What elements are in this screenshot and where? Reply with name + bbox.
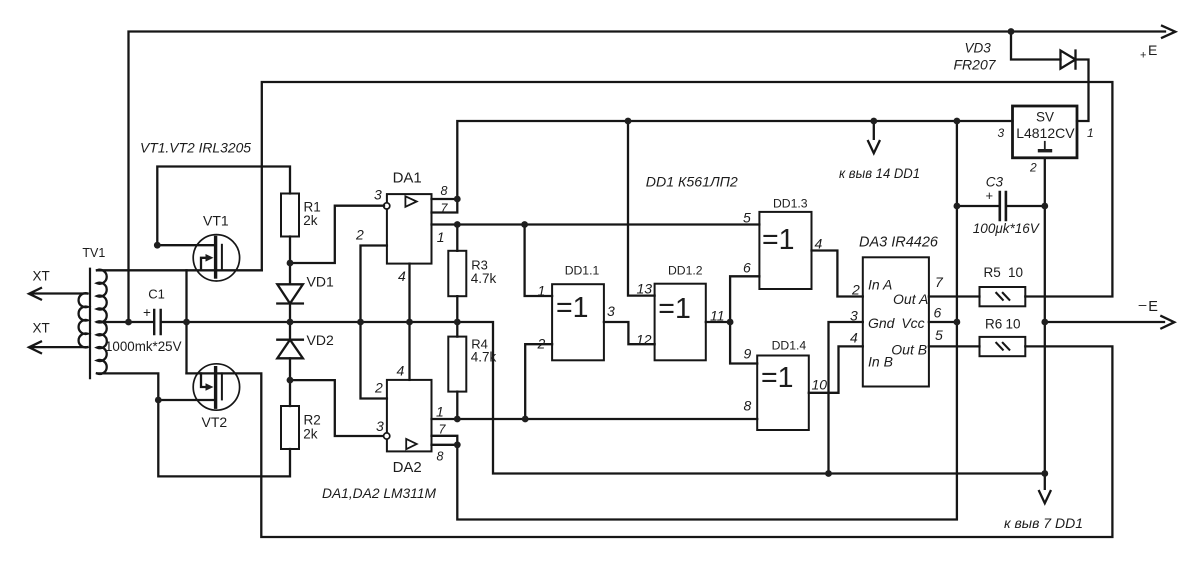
svg-text:VT1.VT2 IRL3205: VT1.VT2 IRL3205 [140,140,251,156]
svg-text:4: 4 [398,268,406,284]
logic gate DD1.1 box [552,284,604,360]
svg-text:9: 9 [744,346,752,362]
node VT2 gate [155,397,162,404]
svg-text:4.7k: 4.7k [471,350,497,365]
node DD1.2 output [727,319,734,326]
transformer TV1 primary winding [79,293,88,347]
svg-text:8: 8 [441,184,448,198]
transistor VT1 arrow [201,258,207,271]
driver DA3 box [863,257,929,386]
wire DA1 pin8 pin7 [432,199,458,213]
resistor R5 [980,287,1026,306]
svg-text:4: 4 [815,236,823,252]
wire DD1.1 pin1 dropper [525,225,553,297]
svg-text:DD1 К561ЛП2: DD1 К561ЛП2 [646,174,738,190]
node DA1 pin1 R3 [454,221,461,228]
node R1 bottom [287,260,294,267]
transistor VT1 circle [193,235,239,281]
svg-text:1: 1 [538,283,546,299]
svg-text:VD3: VD3 [965,41,992,56]
wire DD1.1 output to DD1.2 pin12 [604,322,655,344]
svg-text:5: 5 [743,210,751,226]
node +12 rail riser [954,118,961,125]
svg-text:13: 13 [637,280,653,296]
logic gate DD1.2 box [655,284,706,361]
diode VD3 [1061,51,1076,69]
svg-text:11: 11 [710,308,725,324]
node center rail pin4 column [406,319,413,326]
svg-text:3: 3 [998,126,1005,140]
transistor VT1 gate electrode [221,245,223,270]
wire secondary bottom lead to VT2 gate [97,373,158,400]
wire DA3 pin3 Gnd dropper [829,322,863,474]
wire node to DD1.3 pin6 [730,276,759,322]
node R2 top [287,377,294,384]
node DA1 rail DD1.1 pin1 [521,221,528,228]
wire DA2 pin2 from center rail [361,322,387,399]
svg-text:SV: SV [1036,110,1054,125]
node C3 left [954,203,961,210]
svg-text:7: 7 [439,423,447,437]
resistor R4 [448,337,466,392]
wire DA3 pin7 OutA to R5 [929,295,980,297]
svg-text:DD1.4: DD1.4 [772,339,807,353]
svg-text:10: 10 [1006,316,1021,331]
node center rail pin2 column [357,319,364,326]
svg-text:DA1: DA1 [393,170,422,187]
svg-text:1000mk*25V: 1000mk*25V [105,339,182,354]
wire R1 node to DA1 pin3 [290,206,384,263]
svg-text:2k: 2k [303,213,318,228]
wire к выв 7 DD1 arrow [1039,474,1051,503]
wire SV pin3 rail y=121 with DA1 pins 7/8 riser [457,121,1012,199]
svg-text:7: 7 [935,274,944,290]
resistor R1 [281,194,299,237]
wire VD1 to center rail [289,304,291,323]
svg-text:–: – [1139,296,1147,312]
svg-text:FR207: FR207 [954,57,997,73]
svg-text:=1: =1 [762,224,795,256]
svg-text:3: 3 [850,308,858,324]
svg-text:к выв 7 DD1: к выв 7 DD1 [1004,516,1083,531]
node VT1 gate [154,242,161,249]
resistor R3 [448,251,466,296]
wire -E arrowhead [1160,316,1174,329]
node Vcc line [954,319,961,326]
wire DA2 pin1 rail y=419 to DD1.4 pin8 [432,418,758,420]
wire DD1.3 output to DA3 InA [812,251,863,297]
diode VD1 [277,284,303,303]
node C3 right [1041,203,1048,210]
svg-text:8: 8 [437,450,444,464]
wire top +E rail with left drop [129,32,1166,323]
wire -E line [1045,321,1164,323]
svg-text:к выв 14 DD1: к выв 14 DD1 [839,166,920,181]
comparator DA2 box [387,380,432,452]
node center rail left drop [125,319,132,326]
svg-text:+: + [1140,50,1146,62]
wire R1 bottom to VD1 [289,237,291,285]
wire DD1.2 output node [706,321,730,323]
resistor R6 [980,337,1026,356]
wire R2 bottom loop to VT2 gate [158,400,290,476]
svg-text:10: 10 [1008,265,1023,280]
wire R2 node to DA2 pin3 [290,380,384,436]
svg-text:E: E [1148,42,1157,58]
svg-text:2: 2 [355,227,364,243]
wire +E arrowhead [1161,25,1175,38]
svg-text:Out A: Out A [893,291,928,307]
svg-text:VT1: VT1 [203,212,229,228]
svg-text:R5: R5 [984,265,1001,280]
wire XT top lead [29,288,88,301]
svg-text:=1: =1 [556,292,589,324]
comparator DA1 box [387,194,432,264]
pin 3 inversion circle DA1 [384,203,390,209]
diode VD2 [277,340,303,359]
voltage regulator SV L4812CV box [1013,106,1078,158]
logic gate DD1.3 box [759,212,811,289]
wire DA1 pin2 from center rail [361,246,387,323]
svg-text:XT: XT [33,321,50,336]
wire DA1 pin1 rail y=224.5 to DD1.3 pin5 [432,223,760,225]
svg-text:1: 1 [437,229,445,245]
transistor VT1 channel bar [214,238,217,278]
svg-text:R6: R6 [985,316,1002,331]
svg-text:4: 4 [397,363,405,379]
wire к выв 14 DD1 arrow [868,121,880,153]
svg-text:10: 10 [812,377,828,393]
wire DA3 pin6 Vcc [929,321,957,323]
svg-text:DD1.1: DD1.1 [565,264,600,278]
svg-text:2k: 2k [303,426,318,441]
wire secondary top lead to VT1 [97,269,262,271]
svg-text:7: 7 [441,201,449,215]
wire center tap rail with C1 gap, corner down to gnd line [97,322,1045,474]
wire DA2 pin7 pin8 [432,436,458,445]
wire XT bottom lead [29,341,88,354]
svg-text:2: 2 [537,336,546,352]
wire DA3 pin5 OutB to R6 [929,345,980,347]
wire C1 node dropper to VT1/VT2 row [185,270,187,373]
transformer TV1 secondary winding [97,270,107,374]
svg-text:XT: XT [33,269,50,284]
svg-text:+: + [143,305,151,320]
transformer TV1 core [89,269,91,378]
wire VD2 to R2 node [289,358,291,406]
transistor VT2 gate electrode [221,373,223,399]
node center rail C1 right [183,319,190,326]
svg-text:6: 6 [743,260,751,276]
regulator tab symbol inside SV [1044,142,1046,149]
svg-text:5: 5 [935,327,943,343]
wire +12 riser x=957 down to DA2 pins 7/8 [457,121,957,520]
wire DA2 pin4 from center rail [408,322,410,380]
wire VD3 branch from top rail [1011,32,1061,60]
node gnd line DA3 pin3 [825,470,832,477]
capacitor C3 [957,205,1045,207]
wire node to DD1.4 pin9 [730,322,757,364]
op-amp triangle DA2 [406,439,417,449]
wire DA1 pin4 from center rail [408,264,410,322]
svg-text:2: 2 [1029,161,1037,175]
svg-text:In B: In B [868,353,893,369]
svg-text:DA2: DA2 [393,459,422,476]
svg-text:4: 4 [850,330,858,346]
svg-text:VT2: VT2 [202,414,228,430]
wire VT2 gate [158,399,214,401]
svg-text:DA3 IR4426: DA3 IR4426 [859,234,939,250]
wire DD1.4 output to DA3 InB [809,346,863,392]
svg-text:Out B: Out B [891,341,927,357]
wire VD3 to SV pin1 [1076,60,1089,122]
wire R4 bottom lead [456,392,458,419]
svg-text:1: 1 [436,404,444,420]
op-amp triangle DA1 [405,196,416,207]
transistor VT2 circle [193,364,239,410]
node gnd line arrow [1041,470,1048,477]
svg-text:R1: R1 [304,199,321,214]
wire R3 leads [456,225,458,337]
svg-text:C1: C1 [148,286,165,301]
svg-text:TV1: TV1 [82,246,105,260]
svg-text:L4812CV: L4812CV [1016,125,1075,141]
wire center rail to VD2 [289,322,291,340]
logic gate DD1.4 box [757,356,809,431]
node DA2 rail DD1.1 pin2 [522,416,529,423]
svg-text:3: 3 [376,418,384,434]
node DA2 pin 8 [454,441,461,448]
pin 3 inversion circle DA2 [384,433,390,439]
node top rail VD3 branch [1008,28,1015,35]
wire DD1.1 pin2 riser [525,344,552,419]
svg-text:DA1,DA2 LM311M: DA1,DA2 LM311M [322,486,437,501]
svg-text:2: 2 [374,380,383,396]
wire VT1 gate [157,244,214,246]
svg-text:Gnd: Gnd [868,315,896,331]
svg-text:3: 3 [607,303,615,319]
capacitor C1 [154,310,161,334]
wire SV pin2 down through C3 right and -E to bottom arrow [1044,158,1046,474]
svg-text:3: 3 [374,187,382,203]
svg-text:E: E [1148,299,1158,315]
svg-text:VD2: VD2 [307,332,334,348]
wire DD1.2 pin13 riser to +12 rail [628,121,655,296]
svg-text:Vcc: Vcc [901,315,924,331]
node +12 rail arrow [870,118,877,125]
svg-text:DD1.2: DD1.2 [668,264,703,278]
svg-text:DD1.3: DD1.3 [773,196,808,210]
node +12 rail pin13 [625,118,632,125]
svg-text:2: 2 [851,282,860,298]
node center rail VD junction [287,319,294,326]
svg-text:R2: R2 [304,413,321,428]
svg-text:4.7k: 4.7k [471,271,497,286]
wire VT2 drain row and riser down to bottom rail [187,346,1113,537]
resistor R2 [281,406,299,449]
node -E line [1041,319,1048,326]
transistor VT2 arrow [201,373,207,387]
svg-text:1: 1 [1087,126,1094,140]
svg-text:VD1: VD1 [307,274,334,290]
svg-text:6: 6 [934,305,942,321]
svg-text:8: 8 [744,398,752,414]
svg-text:100μk*16V: 100μk*16V [973,221,1041,236]
svg-text:+: + [986,188,994,203]
wire VT1 gate top loop to R1 [157,167,290,246]
node center rail R3 R4 [454,319,461,326]
svg-text:In A: In A [868,277,892,293]
svg-text:=1: =1 [658,293,691,325]
node DA1 pin 8 [454,196,461,203]
svg-text:12: 12 [636,332,652,348]
node DA2 pin1 R4 [454,416,461,423]
wire inner top rail y=82 from VT1 drain to R5 loop [262,82,1113,297]
svg-text:=1: =1 [761,362,794,394]
transistor VT2 channel bar [214,368,217,408]
